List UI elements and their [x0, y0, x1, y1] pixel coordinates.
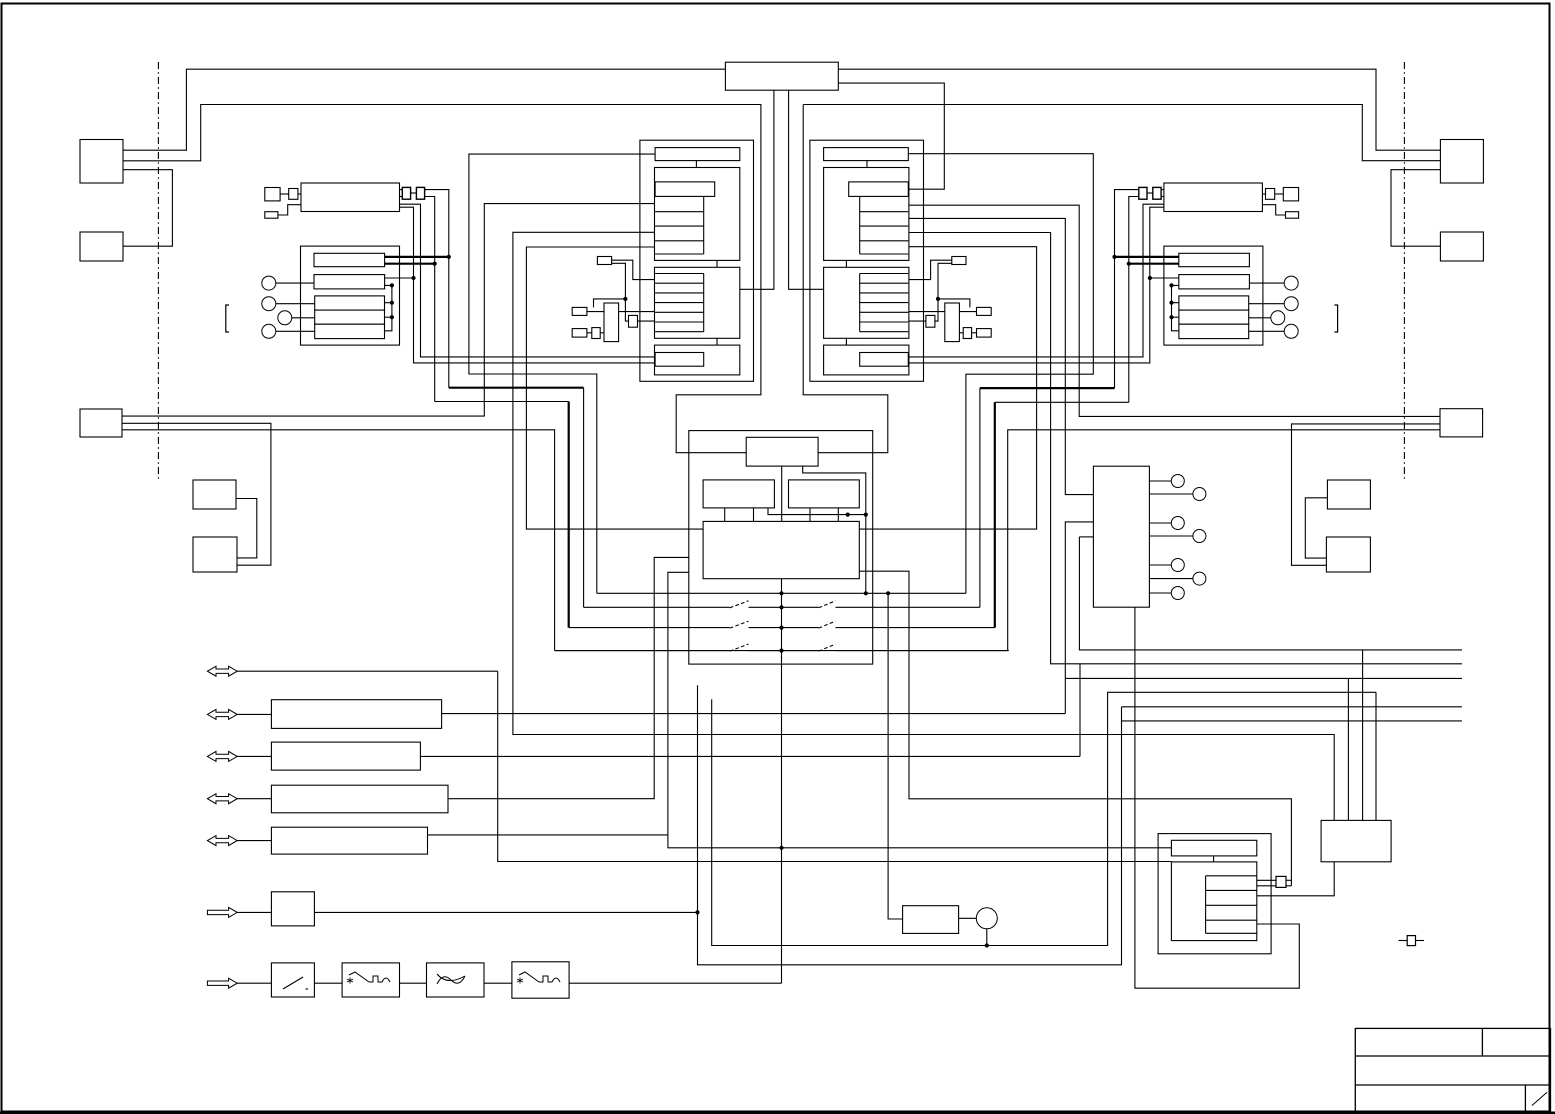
wire audioR net [1172, 285, 1179, 330]
arrow port4 [207, 794, 237, 804]
wire av3 in [237, 755, 271, 757]
wire row2 switch seg b [749, 606, 819, 608]
terminal T1 [1407, 936, 1415, 946]
wire beadR out 2 [1129, 197, 1139, 403]
wire blkR pin3 [910, 218, 1094, 494]
wire beadR out 1 [1115, 190, 1139, 389]
head stack row [1206, 875, 1257, 877]
xtal Y1 [604, 303, 619, 342]
wire pg chain [1079, 537, 1462, 650]
wire head conn b [1257, 885, 1276, 887]
wire blk pin1 [469, 154, 655, 593]
wire CN1 to top bus [123, 69, 725, 150]
xtal YR1 [945, 303, 960, 342]
IC video L stack2 row [655, 331, 704, 333]
wire xtalR bus [908, 311, 976, 313]
block AV3 [271, 785, 448, 813]
wire CN3 mid [122, 423, 271, 565]
servo main U20 [703, 521, 859, 578]
wire f4 out [569, 982, 781, 984]
bead FB2 [416, 187, 424, 199]
trap [592, 328, 600, 339]
wire jack2 [276, 303, 315, 305]
wire drum box link [959, 917, 977, 919]
arrow port5 [207, 836, 237, 846]
wire blkR pin4 [910, 233, 1463, 664]
head inner box [1171, 862, 1256, 941]
IF group shieldR [1164, 246, 1263, 345]
wire mech sense [420, 755, 1080, 757]
filter F4 [512, 962, 569, 998]
wire row3 switch seg c [836, 627, 995, 629]
arrow port3 [207, 751, 237, 761]
wire servo T right [803, 466, 866, 593]
junction audioR [1169, 283, 1173, 287]
wire tuner pin a [400, 189, 403, 191]
connector CN2 [80, 232, 123, 261]
IC video R stack1 row [860, 211, 909, 213]
wire tunerR pin d [909, 207, 1164, 363]
wire cap motor line [712, 692, 1376, 945]
trapR [963, 328, 971, 339]
wire servo stub Ra [809, 508, 811, 522]
wire to jbox b [1065, 677, 1462, 679]
glyph F4 star [517, 978, 523, 984]
wire ctl head [314, 911, 697, 913]
wire head conn c [1286, 879, 1291, 881]
IC video L out section [655, 345, 740, 375]
IC video L stack1 row [655, 211, 704, 213]
wire row2 switch blade R [819, 601, 836, 608]
wire bead out 2 [425, 197, 435, 402]
wire deck bus1 [442, 713, 1066, 715]
block AV2 [271, 742, 420, 770]
wire mode sw [428, 834, 668, 836]
pin P3 [1171, 517, 1184, 530]
wire tension [668, 572, 1172, 848]
connector CN5R [1326, 537, 1370, 572]
pin P1 [1171, 475, 1184, 488]
IC video R stack2 row [860, 282, 909, 284]
wire blkR pin2 [910, 205, 1441, 416]
head block frame [1158, 834, 1271, 954]
title vsplit [1481, 1028, 1483, 1056]
wire xtalR b [959, 332, 963, 334]
connector CN3R [1440, 409, 1483, 437]
wire cn6 p5 [1149, 564, 1171, 566]
junction audio tapC [390, 301, 394, 305]
IF amp B2 [1179, 275, 1250, 289]
IC video R stack2 row [860, 321, 909, 323]
arrow port2 [207, 709, 237, 719]
servo L box [703, 480, 774, 508]
jack J7 [1271, 311, 1285, 325]
wire jack3R [1249, 317, 1272, 319]
wire row3 switch blade L [730, 621, 749, 628]
wire mod2R to tuner [1262, 205, 1285, 215]
jack J6 [1284, 297, 1298, 311]
wire resoR out [908, 320, 926, 322]
wire syscon drop right [789, 90, 824, 289]
audio proc C2 [1179, 296, 1249, 310]
osc XR1 [952, 257, 966, 265]
modulator RF5 [1266, 189, 1275, 200]
wire reel sense [448, 557, 689, 798]
audio proc C1 [315, 296, 385, 310]
wire IF out 1 thick [385, 256, 449, 258]
servo ctl box [746, 437, 818, 466]
wire oscR c [938, 299, 970, 308]
wire xtalR a [972, 332, 977, 334]
wire keyR row3 feed [995, 401, 1129, 403]
wire row2 switch seg c [836, 606, 980, 608]
junction BR riser [1148, 276, 1152, 280]
junction ctl [695, 910, 699, 914]
wire row3 switch blade R [819, 621, 836, 628]
wire jack4R [1249, 330, 1288, 332]
motor drive M1 [903, 906, 959, 934]
IC video R chroma section [824, 267, 909, 338]
IC video R stack2 row [860, 292, 909, 294]
IC video L stack2 row [655, 282, 704, 284]
modulator RF6 [1286, 212, 1299, 219]
wire B pin [385, 277, 414, 279]
IC video R stack2 row [860, 273, 909, 275]
wire bus 707 [1122, 706, 1463, 708]
wire IFR out 1 thick [1115, 256, 1179, 258]
wire jack1R [1249, 282, 1287, 284]
wire f3 f4 [484, 982, 512, 984]
wire cn6 p2 [1149, 493, 1193, 495]
wire tunerR pin c [909, 204, 1164, 357]
IC video L out inner [655, 353, 704, 367]
junction motor tap [985, 943, 989, 947]
wire blk pin3 long [513, 232, 1334, 820]
wire row4 to CN3R [555, 430, 1440, 651]
wire bus 721 [1122, 720, 1463, 722]
bead FB3 [1153, 187, 1161, 199]
osc boxR3 [977, 329, 992, 338]
wire tuner pin d [400, 207, 656, 363]
wire mod2 to tuner [278, 205, 301, 215]
wire cn6 p1 [1149, 480, 1171, 482]
junction audio tapD [390, 315, 394, 319]
wire cn6 p6 [1149, 578, 1193, 580]
IC video R out inner [860, 353, 909, 367]
IC video L stack2 edge [703, 274, 705, 332]
wire audio tapD [385, 316, 392, 318]
IC video R stub2 [845, 260, 847, 267]
wire cn6 p3 [1149, 522, 1171, 524]
shield line left [157, 62, 159, 479]
wire servo stub La [724, 508, 726, 522]
wire pg line [1079, 536, 1093, 538]
wire head conn d [1286, 885, 1291, 887]
pin P4 [1193, 530, 1206, 543]
bracket group R [1334, 305, 1337, 332]
servo frame [689, 431, 873, 664]
connector CN2R [1440, 232, 1483, 261]
IC video R out section [824, 345, 909, 375]
wire CN4 link [236, 499, 257, 558]
wire CN4R link [1305, 498, 1327, 558]
wire IF out 2 thick [385, 263, 435, 265]
wire bus right to frame [803, 105, 1440, 161]
tuner TU2 [1164, 183, 1263, 212]
wire av4 in [237, 798, 271, 800]
IC video R top box [824, 148, 909, 161]
IF amp A2 [1179, 253, 1250, 266]
glyph F2 star [347, 978, 353, 984]
audio proc D2 [1179, 310, 1249, 324]
wire osc c [594, 299, 626, 308]
osc box2 [572, 307, 587, 315]
wire key row2 drop [583, 388, 585, 608]
IC video L stack2 row [655, 321, 704, 323]
wire jack2R [1249, 303, 1288, 305]
modulator RF2 [289, 189, 298, 200]
wire f1 f2 [314, 982, 342, 984]
junction audio [390, 283, 394, 287]
junction B riser [411, 276, 415, 280]
wire row3 switch seg b [749, 627, 819, 629]
wire servo stub Rb [837, 508, 839, 522]
wire servo stub T [781, 466, 783, 521]
wire head conn a [1257, 879, 1276, 881]
IC video L outer frame [640, 140, 754, 381]
IC video L stub3 [716, 338, 718, 345]
wire row4 switch seg a [555, 650, 730, 652]
wire oscR b [935, 263, 952, 321]
audio proc E2 [1179, 324, 1249, 338]
wire keyR row2 drop [979, 388, 981, 607]
tuner TU1 [301, 183, 400, 212]
wire row4 switch seg c [836, 650, 1009, 652]
wire tuner chain in [237, 982, 271, 984]
wire mod to tuner [298, 193, 301, 195]
wire audioR tapC [1172, 302, 1179, 304]
wire top bus right [838, 69, 1440, 150]
wire drum riser [888, 593, 903, 919]
wire osc b [612, 263, 629, 321]
wire term a [1399, 940, 1408, 942]
arrow port6 [207, 907, 237, 917]
wire blkR pin1 [908, 154, 1093, 594]
junction audioR tapC [1169, 301, 1173, 305]
wire row4 switch blade R [819, 644, 836, 651]
glyph F3 sine [437, 974, 465, 984]
osc X1 [597, 257, 611, 265]
wire jack1 [276, 282, 314, 284]
title row2 [1355, 1084, 1550, 1086]
junction osc [623, 297, 627, 301]
IC video L stack1 edge [703, 196, 705, 254]
wire aux drop [1079, 664, 1081, 757]
wire keyR row3 drop [994, 402, 996, 627]
audio proc E1 [315, 324, 385, 338]
wire f2 f3 [400, 982, 427, 984]
wire xtal bus [587, 311, 655, 313]
wire key row3 feed [435, 401, 569, 403]
wire CN3 low [122, 430, 555, 651]
pin P6 [1193, 572, 1206, 585]
junction column x [779, 846, 783, 850]
wire jbox drop b [1347, 678, 1349, 820]
wire keyR row2 feed [980, 387, 1115, 389]
wire modR to tuner [1262, 193, 1265, 195]
title block [1355, 1028, 1550, 1112]
junction row1 c [886, 591, 890, 595]
glyph F4 wave [519, 972, 560, 982]
wire syscon drop left [740, 90, 774, 289]
servo R box [789, 480, 860, 508]
wire reso out [638, 320, 656, 322]
wire av2 in [237, 713, 271, 715]
pin P2 [1193, 488, 1206, 501]
wire xtal b [600, 332, 604, 334]
wire key row3 drop [568, 402, 570, 628]
junction row [779, 591, 783, 595]
wire syscon aux right [838, 83, 944, 189]
junction audioR tapD [1169, 315, 1173, 319]
wire small mod link [280, 193, 289, 195]
IC video R stack1 row [860, 240, 909, 242]
IC video R stack2 row [860, 311, 909, 313]
junction servo a [846, 513, 850, 517]
IC video R stack1 row [860, 253, 909, 255]
bead FB4 [1139, 187, 1147, 199]
block CTL [271, 892, 314, 926]
wire fg chain [1135, 607, 1299, 988]
filter F2 [342, 963, 399, 997]
wire oscR a [908, 260, 952, 279]
wire BR pin [1150, 277, 1179, 279]
modulator RF3 [265, 212, 278, 219]
junction box JB1 [1321, 820, 1391, 861]
head stack row [1206, 904, 1257, 906]
wire ctl in [237, 911, 271, 913]
wire blk pin4 cross [526, 247, 1036, 529]
wire key row2 feed [449, 387, 584, 389]
wire jbox drop c [1375, 692, 1377, 820]
wire blk pin2 [122, 204, 655, 417]
wire motor stub [986, 929, 988, 946]
IC video L stack2 row [655, 302, 704, 304]
IC video L chroma section [655, 267, 740, 338]
osc box3 [572, 329, 587, 338]
junction IF2R [1127, 262, 1131, 266]
head bar [1171, 840, 1256, 856]
wire row2 switch seg a [584, 606, 730, 608]
IC video L stack2 row [655, 292, 704, 294]
IC video R stack2 edge [859, 274, 861, 332]
connector CN6 [1093, 466, 1149, 607]
wire small modR link [1275, 193, 1284, 195]
IC video L stub2 [716, 260, 718, 267]
wire term b [1416, 940, 1425, 942]
wire av1 [237, 670, 498, 672]
title diagonal [1532, 1092, 1547, 1105]
connector CN1R [1440, 140, 1483, 184]
connector CN4R [1327, 480, 1370, 509]
head stack row [1206, 932, 1257, 934]
IC video L stack2 row [655, 273, 704, 275]
wire bead link [411, 192, 417, 194]
wire cn6 p4 [1149, 535, 1193, 537]
IC video L pre amp [655, 182, 715, 197]
page border bottom heavy [0, 1112, 1555, 1114]
filter F3 [427, 963, 485, 997]
IC video R stub1 [866, 161, 868, 168]
arrow port1 [207, 666, 237, 676]
head stack row [1206, 919, 1257, 921]
wire CN1 to CN2 [123, 170, 172, 247]
connector CN1 [80, 140, 123, 184]
IF group shield [301, 246, 400, 345]
osc boxR2 [977, 307, 992, 315]
connector CN5 [193, 537, 237, 572]
junction IF1 [447, 255, 451, 259]
wire servo net [768, 508, 866, 515]
head stack row [1206, 889, 1257, 891]
junction servo b [864, 513, 868, 517]
jack J8 [1284, 324, 1298, 338]
IC video L top box [655, 148, 740, 161]
wire CN1R to CN2R [1391, 170, 1440, 247]
wire row3 switch seg a [569, 627, 730, 629]
wire servo stub Lb [753, 508, 755, 522]
IC video R outer frame [810, 140, 924, 381]
IC video R stub3 [845, 338, 847, 345]
IC video R pre amp [849, 182, 909, 197]
wire jack3 [292, 317, 315, 319]
wire tunerR pin a [1161, 189, 1164, 191]
wire head sw column [781, 579, 783, 984]
jack J3 [278, 311, 292, 325]
wire jack4 [276, 330, 315, 332]
IC video R stack1 row [860, 225, 909, 227]
wire cn6 p7 [1149, 592, 1171, 594]
wire av1 path [498, 671, 1172, 861]
wire deck bus1 up [1065, 522, 1093, 714]
audio proc D1 [315, 310, 385, 324]
syscon U10 [725, 62, 838, 90]
glyph F1 blade [283, 977, 303, 989]
wire jbox drop d [1362, 650, 1364, 821]
IC video R video section [824, 168, 909, 261]
wire av5 in [237, 840, 271, 842]
junction IF1R [1112, 255, 1116, 259]
IF amp A1 [314, 253, 385, 266]
wire tuner pin c [400, 204, 656, 357]
wire tuner pin b [400, 196, 403, 198]
IC video L stack1 row [655, 240, 704, 242]
modulator RF4 [1283, 188, 1298, 201]
block AV1 [271, 700, 441, 729]
head conn box [1276, 876, 1286, 887]
wire xtal a [587, 332, 592, 334]
pin P7 [1171, 587, 1184, 600]
glyph F1 dot [306, 988, 309, 990]
wire ctl column [698, 685, 1122, 965]
head stack edge [1205, 876, 1207, 934]
IC video L stack1 row [655, 253, 704, 255]
reso [629, 315, 638, 327]
IC video L stack1 row [655, 225, 704, 227]
junction row [779, 649, 783, 653]
glyph F2 wave [349, 972, 390, 982]
wire audio net [385, 285, 392, 330]
